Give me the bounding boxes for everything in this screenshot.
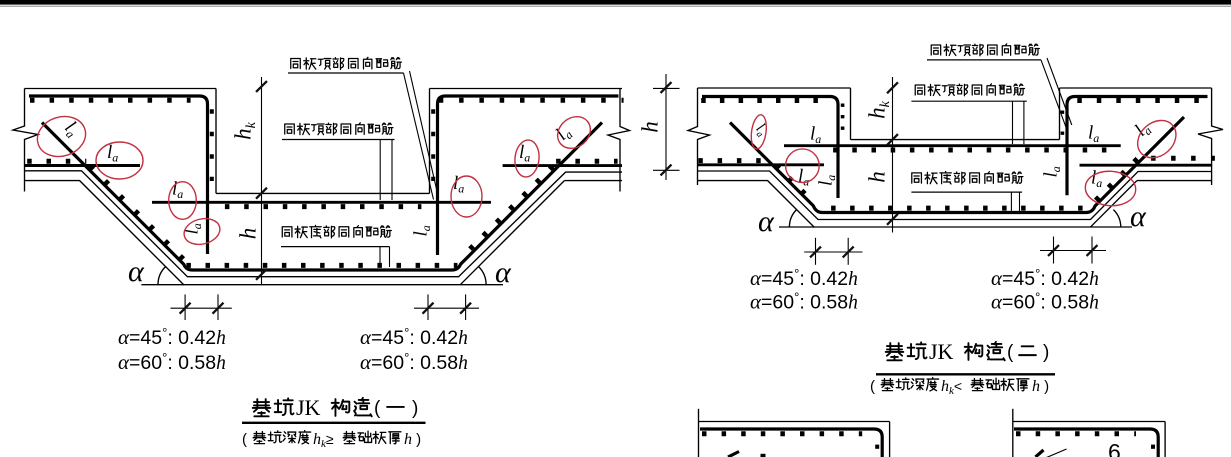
fig2 center dim tick at pit floor — [887, 134, 898, 145]
fig2 center dimension line hk and h — [892, 77, 894, 233]
partialA corner dot — [875, 445, 879, 449]
svg-text:h: h — [865, 171, 890, 183]
fig2 left h dim tick top — [661, 82, 672, 93]
fig2 red circle left diagonal la — [749, 114, 768, 150]
svg-text:la: la — [798, 166, 809, 189]
partialB left edge — [1012, 409, 1014, 457]
fig2 right edge with break symbol — [1198, 88, 1223, 185]
fig2 leader labelB underline — [911, 100, 1026, 102]
fig1 subtitle 基础板厚 — [343, 431, 401, 444]
fig1 pit floor surface — [216, 192, 430, 194]
partialA diagonal rebar stub — [728, 452, 739, 457]
fig2 la label on left diagonal (small) — [751, 120, 771, 140]
svg-text:hk≥: hk≥ — [313, 431, 334, 450]
fig2 cushion outline right slope — [1090, 181, 1137, 228]
fig2 left slab top rebar bending into pit wall — [702, 97, 838, 199]
fig2 cushion outline left slope — [698, 181, 815, 228]
fig1 red circle right floor extension la — [451, 176, 482, 217]
fig2 left slab top surface — [698, 87, 851, 89]
fig2 leader labelC text 同板底部同向配筋 — [912, 171, 1023, 183]
svg-text:(: ( — [242, 431, 247, 448]
fig2 left slope angle arc — [789, 209, 796, 227]
fig2 leader labelC leader a — [1010, 192, 1012, 211]
partialA slab top rebar dots — [702, 431, 862, 436]
fig2 leader labelC underline — [911, 191, 1022, 193]
fig1 left 042h dim guide b — [217, 294, 219, 320]
fig2 right 042h dim line — [1040, 250, 1106, 252]
partialB right surface edge — [1164, 422, 1166, 457]
fig2 pit floor rebar dots — [833, 148, 1110, 153]
fig2 right slab bottom rebar with la extension — [1080, 164, 1212, 167]
partialB slab top rebar with corner — [1014, 429, 1158, 457]
svg-text:la: la — [1091, 168, 1102, 191]
fig1 pit floor rebar dots — [225, 204, 422, 209]
fig2 left 042h dim guide a — [815, 238, 817, 265]
fig1 la label right floor extension — [453, 173, 464, 196]
partialB slab top surface — [1013, 421, 1165, 423]
fig2 left h dimension line — [665, 74, 667, 180]
fig2 red circle right slab extension la — [1084, 170, 1137, 208]
fig2 leader labelB leader a — [1012, 101, 1014, 144]
fig2 left slab bottom rebar with la extension — [698, 163, 825, 166]
fig1 la label right slab extension — [519, 142, 530, 165]
fig1 leader label3 underline — [281, 246, 390, 248]
fig1 red circle left floor extension la — [169, 182, 197, 220]
fig1 title 构造 part2 — [332, 398, 372, 416]
svg-text:la: la — [519, 142, 530, 165]
fig2 pit floor surface — [851, 139, 1060, 141]
fig2 left slope rebar dots — [776, 165, 812, 201]
fig2 right wall rebar dots — [1061, 111, 1065, 138]
fig1 subtitle 基坑深度 — [253, 431, 310, 444]
svg-text:(: ( — [1007, 342, 1014, 363]
fig1 red circle right slab extension la — [513, 139, 541, 178]
fig1 right slab bottom rebar with la extension — [503, 164, 622, 167]
fig2 red circle right diagonal la — [1130, 113, 1183, 166]
fig2 leader labelC leader b — [1019, 192, 1021, 211]
fig2 leader labelA line b — [1047, 58, 1072, 125]
fig1 right slab top rebar dots — [439, 98, 624, 103]
svg-text:α: α — [758, 205, 775, 238]
svg-text:): ) — [412, 398, 418, 419]
fig1 right edge with break symbol — [608, 89, 630, 192]
fig1 dim tick at slab top — [256, 81, 267, 92]
fig1 cushion outline left slope — [25, 181, 185, 286]
svg-text:JK: JK — [296, 395, 321, 420]
fig1 right slab top surface — [430, 88, 623, 90]
fig1 title underline — [242, 422, 426, 424]
svg-text:la: la — [1088, 123, 1099, 146]
fig1 leader label1 line b — [410, 71, 439, 197]
fig2 la label left slab extension — [798, 166, 809, 189]
fig1 left slope angle arc — [158, 267, 166, 285]
fig1 left slab bottom rebar with la extension — [25, 164, 141, 167]
fig2 left h dim tick bottom — [661, 165, 672, 176]
fig1 left 042h dim line — [171, 307, 232, 309]
fig1 right slab bottom rebar dots — [556, 159, 618, 164]
partialB dim slash stub — [1036, 450, 1044, 457]
fig1 left slab top rebar bending into pit wall — [29, 96, 208, 254]
svg-text:h ): h ) — [1032, 378, 1049, 395]
fig1 bent slope rebar with diagonal la anchors and pit bottom rebar — [42, 123, 602, 271]
fig2 right slab top rebar dots — [1077, 98, 1212, 103]
svg-text:hk: hk — [231, 121, 260, 140]
fig1 concrete bottom outline (slab bottoms, slopes, pit bottom) — [25, 171, 623, 277]
fig2 leader labelB leader b — [1023, 101, 1025, 144]
fig1 la label on left diagonal — [59, 117, 83, 141]
fig1 la label left wall anchor (rotated) — [182, 223, 205, 234]
fig1 left 042h tick b — [213, 303, 224, 314]
svg-text:α=45°: 0.42h: α=45°: 0.42h — [991, 266, 1099, 290]
svg-text:la: la — [552, 122, 576, 146]
svg-text:α=60°: 0.58h: α=60°: 0.58h — [360, 350, 468, 374]
fig2 leader labelA text 同板顶部同向配筋 — [931, 44, 1039, 56]
svg-text:α=45°: 0.42h: α=45°: 0.42h — [750, 266, 858, 290]
fig2 center dim tick at pit bottom — [887, 214, 898, 225]
fig2 leader labelB text 同板顶部同向配筋 — [915, 84, 1024, 96]
fig1 right 042h dim guide b — [465, 294, 467, 320]
svg-text:(: ( — [374, 398, 381, 419]
fig2 title 构造 — [965, 342, 1005, 360]
svg-text:α: α — [1130, 200, 1147, 233]
svg-text:(: ( — [870, 378, 875, 395]
fig1 red circle left slab extension la — [96, 142, 143, 179]
fig2 concrete bottom outline (slab bottoms, slopes, pit bottom) — [698, 171, 1212, 220]
fig1 right 042h tick a — [423, 303, 434, 314]
fig1 la label left slab extension — [107, 142, 118, 165]
svg-text:α=45°: 0.42h: α=45°: 0.42h — [360, 325, 468, 349]
fig2 right 042h dim guide a — [1053, 237, 1055, 264]
partialA slab top surface — [699, 421, 890, 423]
fig2 leader labelA line a — [1041, 60, 1067, 129]
fig2 la label left wall anchor (rotated) — [816, 175, 839, 186]
fig2 hk dimension label — [865, 100, 894, 119]
fig1 pit floor top rebar with la extensions — [152, 201, 491, 204]
fig1 right wall rebar dots — [431, 109, 435, 181]
fig2 right slope rebar dots — [1095, 159, 1138, 202]
fig1 red circle left wall anchor la — [181, 215, 222, 248]
fig1 left edge with break symbol — [13, 89, 38, 192]
svg-text:α: α — [495, 256, 512, 289]
partialA small mark — [761, 454, 766, 457]
fig2 left 042h dim line — [804, 251, 862, 253]
partialB slab top rebar dots — [1016, 431, 1136, 436]
svg-text:JK: JK — [929, 339, 954, 364]
fig1 right wall surface — [429, 89, 431, 194]
fig1 title yi — [387, 402, 404, 411]
fig2 left wall rebar dots — [841, 104, 845, 133]
fig2 right 042h tick b — [1087, 245, 1098, 256]
fig2 left 042h dim guide b — [847, 238, 849, 265]
svg-text:la: la — [1041, 166, 1064, 177]
fig2 title 基坑 — [886, 342, 927, 360]
fig1 left slab top rebar dots — [30, 98, 191, 103]
fig2 right 042h tick a — [1048, 245, 1059, 256]
fig1 dim tick at pit bottom — [256, 269, 267, 280]
fig1 left wall rebar dots — [210, 109, 214, 181]
fig2 h dimension label — [865, 171, 890, 183]
fig1 right 042h dim line — [414, 307, 479, 309]
fig1 leader label1 text 同板顶部同向配筋 — [291, 57, 402, 69]
fig2 cushion bottom line — [779, 226, 1132, 228]
fig2 left edge with break symbol — [688, 88, 710, 185]
page top border bar — [0, 0, 1231, 5]
svg-text:h: h — [236, 228, 261, 240]
fig1 left 042h dim guide a — [184, 294, 186, 320]
partialB dim guide stub — [1047, 449, 1067, 457]
fig2 right slab top surface — [1060, 87, 1212, 89]
svg-text:la: la — [816, 175, 839, 186]
svg-text:α=60°: 0.58h: α=60°: 0.58h — [991, 290, 1099, 314]
svg-text:la: la — [810, 124, 821, 147]
fig1 cushion bottom line — [141, 284, 503, 286]
fig1 leader label3 leader b — [389, 247, 391, 267]
partialA slab top rebar with corner — [700, 429, 882, 457]
svg-text:la: la — [411, 225, 434, 236]
fig2 title er — [1019, 346, 1036, 355]
fig2 title underline — [876, 373, 1055, 375]
fig2 left h dim top stub — [653, 87, 680, 89]
fig2 cushion right slab line — [1137, 180, 1212, 182]
fig1 right 042h dim guide a — [427, 294, 429, 320]
fig1 h dimension label — [236, 228, 261, 240]
fig1 cushion right slab line — [564, 180, 622, 182]
fig2 pit bottom rebar dots — [831, 206, 1088, 211]
fig2 la label right wall anchor (rotated) — [1041, 166, 1064, 177]
fig2 center dim tick at slab top — [887, 82, 898, 93]
fig2 left h dim bottom stub — [653, 169, 680, 171]
fig2 la label left floor extension — [810, 124, 821, 147]
fig1 title 基坑 part1 — [253, 398, 294, 416]
fig1 la label left floor extension — [172, 179, 183, 202]
fig2 leader labelA underline — [927, 59, 1041, 61]
fig1 la label on right diagonal — [552, 122, 576, 146]
fig2 left wall surface — [850, 88, 852, 140]
fig2 la label on right diagonal — [1131, 118, 1155, 142]
fig2 right slab bottom rebar dots — [1151, 156, 1215, 161]
fig1 right 042h tick b — [460, 303, 471, 314]
fig1 red circle right diagonal la — [551, 110, 596, 155]
fig1 left slab bottom rebar dots — [27, 159, 86, 164]
partialA right surface edge — [889, 422, 891, 457]
fig2 subtitle 基坑深度 — [881, 378, 938, 391]
fig2 left slab top rebar dots — [701, 98, 820, 103]
fig1 leader label1 line a — [404, 73, 434, 200]
fig1 cushion outline right slope — [460, 181, 564, 285]
svg-text:h: h — [638, 121, 663, 133]
svg-text:α=60°: 0.58h: α=60°: 0.58h — [750, 290, 858, 314]
partialB corner dot — [1151, 445, 1155, 449]
fig2 left slab h dimension label — [638, 121, 663, 133]
fig2 right 042h dim guide b — [1091, 237, 1093, 264]
fig1 right slope rebar dots — [464, 166, 553, 255]
fig2 right wall surface — [1059, 88, 1061, 140]
fig1 leader label2 leader a — [379, 140, 381, 201]
fig2 right slab top rebar bending into pit wall — [1067, 97, 1208, 196]
fig1 left wall surface — [215, 89, 217, 194]
fig2 la label right slab extension — [1091, 168, 1102, 191]
fig1 dimension line hk and h — [261, 77, 263, 285]
fig1 leader label3 text 同板底部同向配筋 — [282, 225, 391, 237]
page top border underline — [0, 5, 1231, 7]
fig2 right slope angle arc — [1113, 210, 1120, 228]
fig2 bent slope rebar with diagonal la anchors and pit bottom rebar — [730, 117, 1184, 213]
fig2 red circle left slab extension la — [786, 149, 820, 183]
fig1 left slope rebar dots — [90, 166, 185, 261]
svg-text:α=60°: 0.58h: α=60°: 0.58h — [118, 350, 226, 374]
svg-text:hk<: hk< — [941, 378, 962, 397]
fig2 left 042h tick a — [810, 247, 821, 258]
fig2 left slab bottom rebar dots — [698, 158, 774, 163]
fig1 red circle on left diagonal la — [32, 110, 91, 162]
svg-text:α=45°: 0.42h: α=45°: 0.42h — [118, 325, 226, 349]
fig1 leader label2 leader b — [391, 140, 393, 201]
fig1 leader label1 underline — [288, 72, 404, 74]
fig1 hk dimension label — [231, 121, 260, 140]
svg-text:hk: hk — [865, 100, 894, 119]
svg-text:la: la — [107, 142, 118, 165]
fig1 right slope angle arc — [479, 267, 487, 285]
fig1 pit bottom rebar dots — [186, 263, 457, 268]
fig2 left 042h tick b — [843, 247, 854, 258]
partialA left edge — [698, 409, 700, 457]
fig1 right slab top rebar bending into pit wall — [438, 96, 619, 255]
fig1 left slab top surface — [25, 88, 217, 90]
fig1 leader label2 text 同板顶部同向配筋 — [285, 123, 393, 135]
fig1 leader label3 leader a — [379, 247, 381, 267]
fig1 left 042h tick a — [180, 303, 191, 314]
svg-text:α: α — [128, 255, 145, 288]
fig1 dim tick at pit floor — [256, 188, 267, 199]
fig2 subtitle 基础板厚 — [971, 378, 1029, 391]
fig2 pit floor top rebar with la extensions — [784, 144, 1121, 147]
fig2 la label right floor extension — [1088, 123, 1099, 146]
fig1 la label right wall anchor (rotated) — [411, 225, 434, 236]
svg-text:h ): h ) — [404, 431, 421, 448]
svg-text:): ) — [1043, 342, 1049, 363]
svg-text:6: 6 — [1108, 439, 1121, 457]
fig1 leader label2 underline — [282, 139, 395, 141]
